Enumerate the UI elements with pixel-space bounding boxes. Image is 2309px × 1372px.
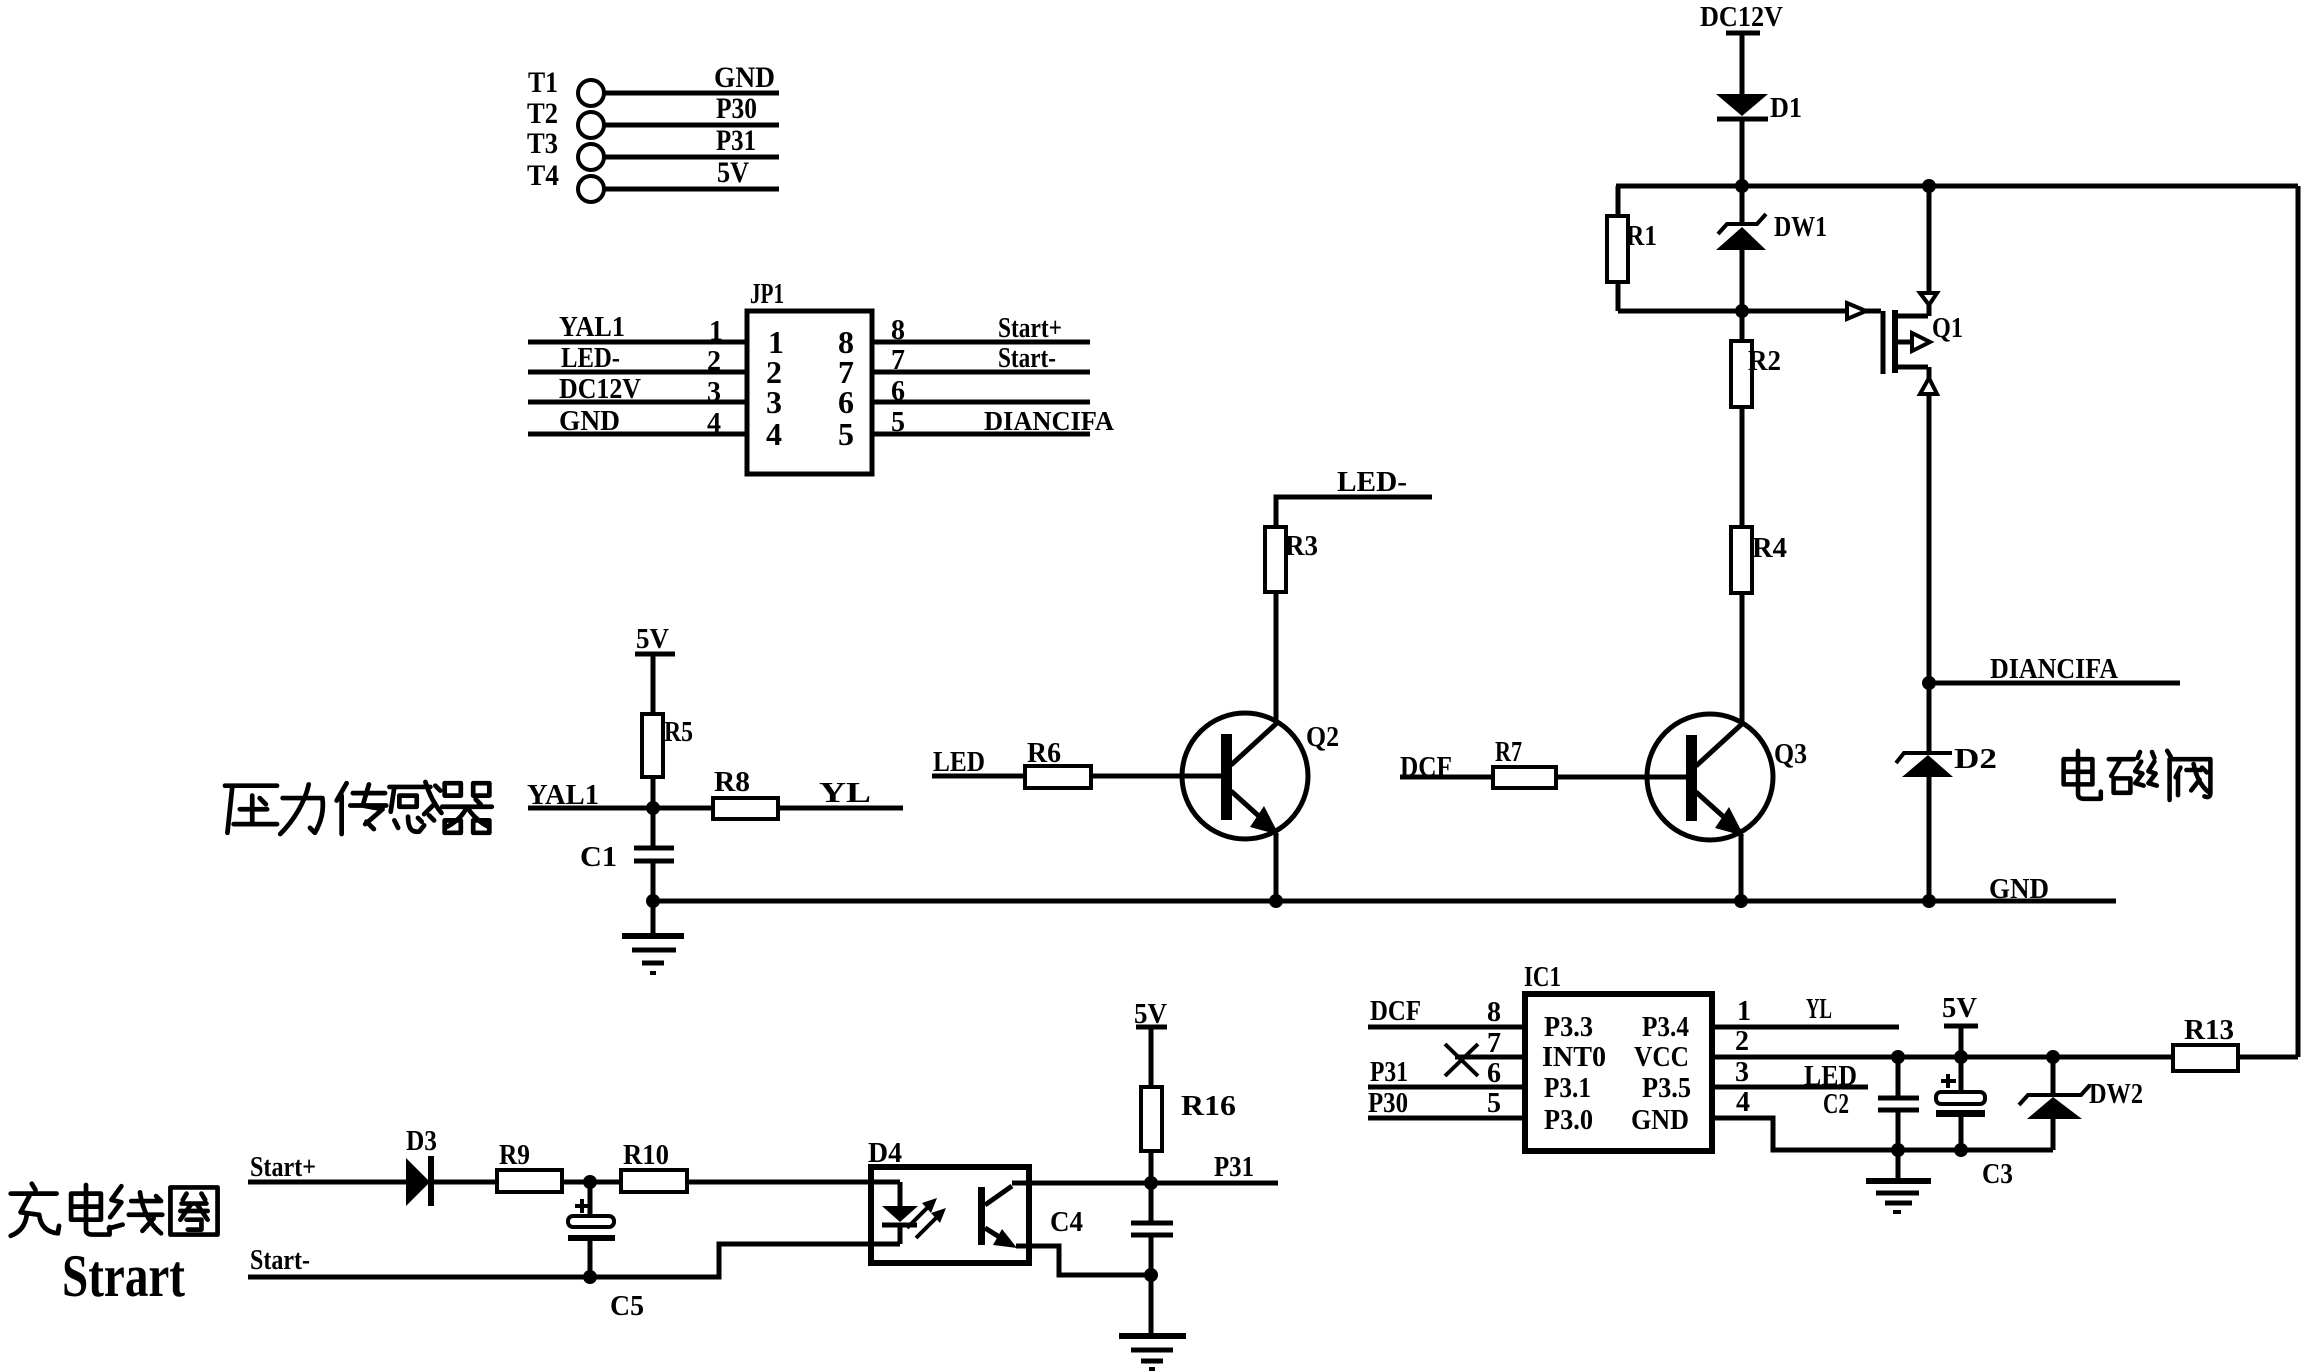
svg-text:Strart: Strart bbox=[62, 1243, 185, 1309]
wire Q3 emitter to bus bbox=[1739, 834, 1744, 901]
svg-text:R1: R1 bbox=[1626, 221, 1657, 252]
svg-text:5V: 5V bbox=[717, 156, 749, 189]
node rail-DW1 bbox=[1735, 179, 1749, 193]
net label GND (JP1) bbox=[559, 406, 620, 437]
svg-text:C5: C5 bbox=[610, 1291, 644, 1322]
svg-text:R6: R6 bbox=[1027, 738, 1061, 769]
svg-text:P3.3: P3.3 bbox=[1544, 1012, 1593, 1043]
label R1 bbox=[1626, 221, 1657, 252]
node DIANCIFA junction bbox=[1922, 676, 1936, 690]
wire T2-P30 bbox=[604, 123, 779, 128]
pin label P3.3 bbox=[1544, 1012, 1593, 1043]
net label Start+ (JP1) bbox=[998, 313, 1062, 344]
svg-text:Q1: Q1 bbox=[1932, 312, 1963, 344]
net label DIANCIFA (JP1) bbox=[984, 406, 1114, 436]
svg-text:R7: R7 bbox=[1495, 737, 1522, 768]
wire IC1 pin4 (GND) bbox=[1712, 1118, 2053, 1150]
svg-text:R5: R5 bbox=[664, 717, 693, 748]
svg-text:Q3: Q3 bbox=[1774, 738, 1807, 770]
node C5 bottom bbox=[583, 1270, 597, 1284]
wire T1-GND bbox=[604, 91, 779, 96]
label Q3 bbox=[1774, 738, 1807, 770]
zener DW1 bbox=[1716, 186, 1766, 311]
wire IC1 pin6 (P31) bbox=[1368, 1085, 1525, 1090]
svg-text:T4: T4 bbox=[527, 159, 559, 192]
wire JP1 pin5 (DIANCIFA) bbox=[872, 432, 1090, 437]
optocoupler D4 light arrows bbox=[907, 1198, 946, 1238]
svg-text:Q2: Q2 bbox=[1306, 721, 1339, 753]
net label DIANCIFA (right) bbox=[1990, 654, 2119, 685]
svg-text:LED: LED bbox=[1804, 1061, 1857, 1092]
svg-text:P30: P30 bbox=[716, 92, 757, 125]
pin number 2 (IC1) bbox=[1735, 1026, 1749, 1057]
label Strart (coil) bbox=[62, 1243, 185, 1309]
wire IC1 pin3 (LED) bbox=[1712, 1085, 1868, 1090]
svg-text:1: 1 bbox=[709, 316, 723, 347]
svg-text:D1: D1 bbox=[1770, 92, 1802, 124]
svg-text:T3: T3 bbox=[527, 127, 558, 160]
capacitor C3 electrolytic bbox=[1936, 1026, 1985, 1150]
label D2 bbox=[1954, 744, 1997, 775]
svg-text:R13: R13 bbox=[2184, 1015, 2234, 1046]
wire Start+ bbox=[248, 1180, 406, 1185]
resistor R6 bbox=[1025, 766, 1091, 788]
wire T3-P31 bbox=[604, 155, 779, 160]
svg-text:4: 4 bbox=[1736, 1087, 1750, 1118]
svg-text:T2: T2 bbox=[527, 97, 558, 130]
svg-text:5V: 5V bbox=[1942, 992, 1977, 1024]
pin number 2 outside bbox=[707, 346, 721, 377]
wire IC1 pin7 no-connect bbox=[1445, 1044, 1525, 1076]
svg-text:7: 7 bbox=[1487, 1028, 1501, 1059]
power 5V (C3) bbox=[1942, 992, 1978, 1026]
svg-text:C3: C3 bbox=[1982, 1159, 2013, 1190]
net label P30 (IC1) bbox=[1368, 1088, 1408, 1119]
label R9 bbox=[499, 1140, 530, 1171]
wire DCF to R7 bbox=[1400, 775, 1493, 780]
pin label P3.5 bbox=[1642, 1073, 1691, 1104]
svg-text:LED-: LED- bbox=[1337, 467, 1407, 498]
svg-text:3: 3 bbox=[707, 377, 721, 408]
pin label GND (IC1) bbox=[1631, 1105, 1689, 1136]
pin label INT0 bbox=[1542, 1042, 1606, 1073]
net label YL (IC1) bbox=[1806, 994, 1832, 1025]
node C1-GND bbox=[646, 894, 660, 908]
pin number 1 inside bbox=[768, 324, 784, 360]
svg-text:P3.5: P3.5 bbox=[1642, 1073, 1691, 1104]
label R16 bbox=[1181, 1091, 1236, 1122]
zener DW2 bbox=[2019, 1057, 2090, 1150]
diode D2 bbox=[1896, 683, 1953, 901]
svg-text:R4: R4 bbox=[1752, 533, 1787, 564]
wire T4-5V bbox=[604, 187, 779, 192]
wire JP1 pin7 (Start-) bbox=[872, 370, 1090, 375]
optocoupler D4 internal LED bbox=[882, 1182, 918, 1244]
wire LED- bbox=[1276, 497, 1432, 527]
net label YAL1 (sensor) bbox=[527, 780, 599, 811]
svg-text:5: 5 bbox=[838, 416, 854, 452]
capacitor C4 bbox=[1131, 1183, 1173, 1275]
pin number 7 outside bbox=[891, 345, 905, 376]
power 5V (R5) bbox=[635, 623, 675, 655]
label Q1 bbox=[1932, 312, 1963, 344]
svg-text:P31: P31 bbox=[1214, 1152, 1254, 1183]
test point T1 bbox=[528, 66, 604, 106]
wire top rail bbox=[1616, 184, 2298, 189]
pin number 5 outside bbox=[891, 407, 905, 438]
wire JP1 pin4 (GND) bbox=[528, 432, 747, 437]
svg-text:5: 5 bbox=[891, 407, 905, 438]
svg-text:6: 6 bbox=[891, 376, 905, 407]
pin label P3.4 bbox=[1642, 1012, 1689, 1043]
ground symbol (C4) bbox=[1119, 1275, 1186, 1369]
ground symbol (C1) bbox=[622, 901, 684, 973]
svg-text:Start+: Start+ bbox=[998, 313, 1062, 344]
pin number 3 inside bbox=[766, 384, 782, 420]
ground symbol (C2) bbox=[1866, 1150, 1931, 1212]
svg-text:5: 5 bbox=[1487, 1088, 1501, 1119]
svg-text:4: 4 bbox=[766, 416, 782, 452]
node VCC-C3 bbox=[1954, 1050, 1968, 1064]
label R10 bbox=[623, 1140, 669, 1171]
svg-text:Start+: Start+ bbox=[250, 1152, 316, 1183]
resistor R16 bbox=[1141, 1027, 1162, 1183]
resistor R5 bbox=[642, 654, 663, 808]
svg-text:DW2: DW2 bbox=[2089, 1079, 2143, 1110]
wire IC1 pin5 (P30) bbox=[1368, 1116, 1525, 1121]
label DW1 bbox=[1774, 212, 1827, 243]
label R7 bbox=[1495, 737, 1522, 768]
wire IC1 pin2 VCC rail bbox=[1712, 1055, 2175, 1060]
svg-text:R10: R10 bbox=[623, 1140, 669, 1171]
svg-text:GND: GND bbox=[714, 61, 775, 94]
power DC12V bbox=[1700, 1, 1783, 33]
svg-text:GND: GND bbox=[1631, 1105, 1689, 1136]
pin number 8 (IC1) bbox=[1487, 997, 1501, 1028]
transistor Q2 bbox=[1182, 713, 1308, 839]
node rail-Q1 bbox=[1922, 179, 1936, 193]
net label P31 (IC1) bbox=[1370, 1057, 1408, 1088]
pin number 7 (IC1) bbox=[1487, 1028, 1501, 1059]
net label LED bbox=[933, 747, 985, 778]
svg-text:8: 8 bbox=[1487, 997, 1501, 1028]
svg-text:C4: C4 bbox=[1050, 1207, 1083, 1238]
text label 电磁阀 (solenoid valve) bbox=[2064, 751, 2211, 800]
svg-text:6: 6 bbox=[838, 384, 854, 420]
wire JP1 pin1 (YAL1) bbox=[528, 340, 747, 345]
svg-text:R16: R16 bbox=[1181, 1091, 1236, 1122]
net label LED- bbox=[1337, 467, 1407, 498]
svg-text:DW1: DW1 bbox=[1774, 212, 1827, 243]
svg-text:Start-: Start- bbox=[250, 1245, 310, 1276]
svg-text:2: 2 bbox=[707, 346, 721, 377]
optocoupler D4 phototransistor bbox=[978, 1186, 1017, 1248]
svg-text:P30: P30 bbox=[1368, 1088, 1408, 1119]
label C2 bbox=[1823, 1089, 1849, 1120]
svg-text:DIANCIFA: DIANCIFA bbox=[1990, 654, 2119, 685]
connector JP1 bbox=[747, 279, 872, 474]
net label P31 (T3) bbox=[716, 124, 756, 157]
resistor R13 bbox=[2173, 1045, 2298, 1071]
diode D1 bbox=[1716, 94, 1768, 119]
svg-text:IC1: IC1 bbox=[1524, 962, 1561, 993]
svg-text:8: 8 bbox=[891, 315, 905, 346]
net label DCF (IC1) bbox=[1370, 996, 1421, 1027]
label C4 bbox=[1050, 1207, 1083, 1238]
node C4 bottom bbox=[1144, 1268, 1158, 1282]
capacitor C5 electrolytic bbox=[568, 1182, 615, 1277]
svg-text:YAL1: YAL1 bbox=[559, 312, 625, 343]
pin label VCC bbox=[1634, 1042, 1689, 1073]
svg-text:6: 6 bbox=[1487, 1058, 1501, 1089]
pin number 3 outside bbox=[707, 377, 721, 408]
svg-text:C2: C2 bbox=[1823, 1089, 1849, 1120]
svg-text:DC12V: DC12V bbox=[559, 374, 641, 405]
svg-text:GND: GND bbox=[1989, 873, 2049, 905]
wire IC1 pin1 (YL) bbox=[1712, 1025, 1899, 1030]
node VCC-DW2 bbox=[2046, 1050, 2060, 1064]
svg-text:INT0: INT0 bbox=[1542, 1042, 1606, 1073]
label R2 bbox=[1748, 346, 1781, 377]
node C5 top bbox=[583, 1175, 597, 1189]
label DW2 bbox=[2089, 1079, 2143, 1110]
pin number 6 outside bbox=[891, 376, 905, 407]
svg-text:DCF: DCF bbox=[1370, 996, 1421, 1027]
resistor R8 bbox=[713, 798, 778, 819]
label D1 bbox=[1770, 92, 1802, 124]
capacitor C1 bbox=[634, 808, 674, 901]
svg-text:D2: D2 bbox=[1954, 744, 1997, 775]
net label YL bbox=[819, 778, 871, 809]
wire DIANCIFA bbox=[1929, 681, 2180, 686]
svg-text:GND: GND bbox=[559, 406, 620, 437]
wire JP1 pin6 bbox=[872, 400, 1090, 405]
mosfet Q1 bbox=[1883, 186, 1937, 683]
svg-text:LED: LED bbox=[933, 747, 985, 778]
wire JP1 pin8 (Start+) bbox=[872, 340, 1090, 345]
capacitor C2 bbox=[1878, 1057, 1919, 1150]
label C5 bbox=[610, 1291, 644, 1322]
label C3 bbox=[1982, 1159, 2013, 1190]
wire Start- bbox=[248, 1244, 900, 1277]
wire D4 collector to P31 bbox=[1012, 1181, 1278, 1186]
wire gate lead with arrow bbox=[1742, 303, 1881, 319]
pin label P3.1 bbox=[1544, 1073, 1591, 1104]
svg-text:P3.1: P3.1 bbox=[1544, 1073, 1591, 1104]
label R5 bbox=[664, 717, 693, 748]
resistor R4 bbox=[1731, 527, 1752, 723]
pin number 1 (IC1) bbox=[1737, 996, 1751, 1027]
net label P31 (right) bbox=[1214, 1152, 1254, 1183]
svg-text:3: 3 bbox=[766, 384, 782, 420]
svg-text:7: 7 bbox=[891, 345, 905, 376]
net label GND (T1) bbox=[714, 61, 775, 94]
pin number 6 inside bbox=[838, 384, 854, 420]
svg-text:Start-: Start- bbox=[998, 343, 1056, 374]
svg-text:DC12V: DC12V bbox=[1700, 1, 1783, 33]
node gate junction bbox=[1735, 304, 1749, 318]
svg-text:1: 1 bbox=[1737, 996, 1751, 1027]
pin number 7 inside bbox=[838, 354, 854, 390]
resistor R2 bbox=[1731, 311, 1752, 527]
wire R8 to YL bbox=[778, 806, 903, 811]
net label P30 (T2) bbox=[716, 92, 757, 125]
svg-text:P3.0: P3.0 bbox=[1544, 1105, 1593, 1136]
net label LED (IC1) bbox=[1804, 1061, 1857, 1092]
pin number 8 inside bbox=[838, 324, 854, 360]
svg-text:T1: T1 bbox=[528, 66, 558, 99]
node P31 junction bbox=[1144, 1176, 1158, 1190]
pin label P3.0 bbox=[1544, 1105, 1593, 1136]
svg-text:R8: R8 bbox=[714, 767, 750, 798]
node C2-gnd rail bbox=[1891, 1143, 1905, 1157]
transistor Q3 bbox=[1647, 714, 1773, 840]
pin number 5 inside bbox=[838, 416, 854, 452]
svg-text:P31: P31 bbox=[716, 124, 756, 157]
resistor R3 bbox=[1265, 527, 1286, 722]
wire R6 to Q2 base bbox=[1091, 774, 1221, 779]
test point T2 bbox=[527, 97, 604, 138]
wire GND bus bbox=[653, 899, 2116, 904]
net label YAL1 (JP1) bbox=[559, 312, 625, 343]
wire YAL1 bbox=[528, 806, 713, 811]
pin number 2 inside bbox=[766, 354, 782, 390]
pin number 1 outside bbox=[709, 316, 723, 347]
test point T4 bbox=[527, 159, 604, 202]
net label DC12V (JP1) bbox=[559, 374, 641, 405]
label Q2 bbox=[1306, 721, 1339, 753]
net label DCF bbox=[1400, 752, 1452, 783]
resistor R1 bbox=[1607, 186, 1628, 311]
node Q2-GND bbox=[1269, 894, 1283, 908]
svg-text:5V: 5V bbox=[636, 623, 669, 655]
text label 充电线圈 (charging coil) bbox=[11, 1184, 218, 1236]
node Q3-GND bbox=[1734, 894, 1748, 908]
svg-text:YL: YL bbox=[1806, 994, 1832, 1025]
wire IC1 pin8 (DCF) bbox=[1368, 1025, 1525, 1030]
net label LED- (JP1) bbox=[561, 343, 620, 374]
net label GND (bus) bbox=[1989, 873, 2049, 905]
svg-text:DIANCIFA: DIANCIFA bbox=[984, 406, 1114, 436]
label R6 bbox=[1027, 738, 1061, 769]
svg-text:LED-: LED- bbox=[561, 343, 620, 374]
pin number 8 outside bbox=[891, 315, 905, 346]
pin number 6 (IC1) bbox=[1487, 1058, 1501, 1089]
svg-text:R3: R3 bbox=[1285, 531, 1318, 562]
label C1 bbox=[580, 842, 617, 873]
label D3 bbox=[406, 1126, 437, 1157]
power 5V (R16) bbox=[1134, 998, 1167, 1030]
label R4 bbox=[1752, 533, 1787, 564]
net label 5V (T4) bbox=[717, 156, 749, 189]
net label Start- (coil) bbox=[250, 1245, 310, 1276]
net label Start+ (coil) bbox=[250, 1152, 316, 1183]
svg-text:4: 4 bbox=[707, 408, 721, 439]
pin number 4 inside bbox=[766, 416, 782, 452]
wire LED to R6 bbox=[932, 774, 1025, 779]
resistor R7 bbox=[1493, 767, 1556, 788]
wire right edge bbox=[2296, 186, 2301, 1057]
IC U1 (IC1) bbox=[1524, 962, 1712, 1151]
optocoupler D4 bbox=[868, 1138, 1029, 1263]
svg-text:2: 2 bbox=[1735, 1026, 1749, 1057]
wire D4 emitter to C4 bottom bbox=[1016, 1246, 1151, 1275]
svg-text:3: 3 bbox=[1735, 1057, 1749, 1088]
svg-text:P3.4: P3.4 bbox=[1642, 1012, 1689, 1043]
svg-text:R9: R9 bbox=[499, 1140, 530, 1171]
node YAL1 junction bbox=[646, 801, 660, 815]
svg-text:YL: YL bbox=[819, 778, 871, 809]
test point T3 bbox=[527, 127, 604, 170]
pin number 3 (IC1) bbox=[1735, 1057, 1749, 1088]
wire JP1 pin2 (LED-) bbox=[528, 370, 747, 375]
svg-text:R2: R2 bbox=[1748, 346, 1781, 377]
wire D1 to rail bbox=[1740, 121, 1745, 186]
node C3-gnd rail bbox=[1954, 1143, 1968, 1157]
wire DC12V to D1 bbox=[1740, 33, 1745, 94]
text label 压力传感器 (pressure sensor) bbox=[225, 782, 492, 834]
svg-text:VCC: VCC bbox=[1634, 1042, 1689, 1073]
resistor R10 bbox=[621, 1170, 900, 1192]
label R13 bbox=[2184, 1015, 2234, 1046]
svg-text:D3: D3 bbox=[406, 1126, 437, 1157]
resistor R9 bbox=[497, 1170, 621, 1192]
pin number 4 outside bbox=[707, 408, 721, 439]
node VCC-C2 bbox=[1891, 1050, 1905, 1064]
node D2-GND bbox=[1922, 894, 1936, 908]
label R3 bbox=[1285, 531, 1318, 562]
wire Q2 emitter to bus bbox=[1274, 833, 1279, 901]
pin number 4 (IC1) bbox=[1736, 1087, 1750, 1118]
svg-text:C1: C1 bbox=[580, 842, 617, 873]
pin number 5 (IC1) bbox=[1487, 1088, 1501, 1119]
diode D3 bbox=[406, 1156, 497, 1206]
svg-text:P31: P31 bbox=[1370, 1057, 1408, 1088]
wire JP1 pin3 (DC12V) bbox=[528, 400, 747, 405]
wire R7 to Q3 base bbox=[1556, 775, 1686, 780]
svg-text:JP1: JP1 bbox=[750, 279, 784, 310]
net label Start- (JP1) bbox=[998, 343, 1056, 374]
label R8 bbox=[714, 767, 750, 798]
wire R1 bottom to gate node bbox=[1618, 309, 1742, 314]
